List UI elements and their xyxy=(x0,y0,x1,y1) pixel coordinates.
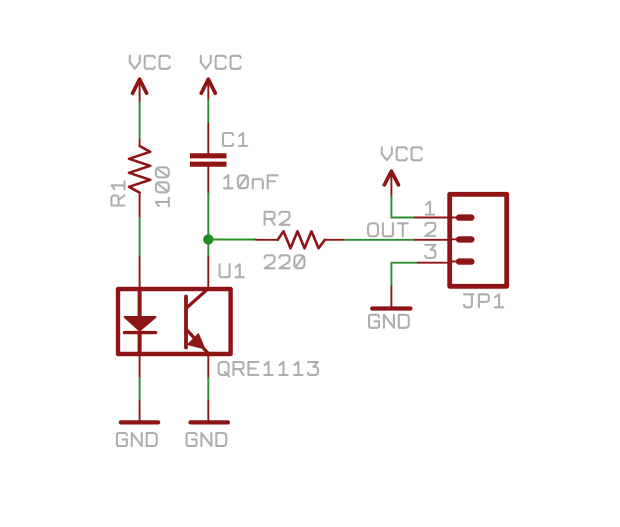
net label VCC (C1 branch) xyxy=(201,56,241,69)
supply symbol VCC (JP1 branch) xyxy=(384,171,398,185)
wire/net: junction down to U1 collector xyxy=(207,240,209,258)
wire/net: C1 to junction xyxy=(207,193,209,239)
wire: VCC pin stub (JP1 branch) xyxy=(390,171,392,196)
capacitor C1 pin stub top xyxy=(207,124,209,153)
resistor R1 name label xyxy=(112,181,125,205)
IC U1 value label QRE1113 xyxy=(219,362,318,377)
connector JP1 name label xyxy=(464,294,503,307)
wire/net OUT: R2 to JP1 pin 2 xyxy=(344,239,415,241)
U1 phototransistor base bar xyxy=(184,297,188,348)
IC U1 QRE1113 body outline xyxy=(118,289,231,354)
wire/net: pin3 corner down xyxy=(390,263,392,287)
resistor R2 name label xyxy=(265,212,290,225)
capacitor C1 name label xyxy=(223,133,247,146)
ground symbol GND (LED branch) xyxy=(121,420,158,424)
connector JP1 body outline xyxy=(450,194,507,286)
capacitor C1 value label 10nF xyxy=(224,175,278,188)
JP1 pin 2 stub xyxy=(415,239,449,241)
supply symbol VCC (R1 branch) xyxy=(133,79,147,93)
capacitor C1 plates xyxy=(190,156,227,164)
wire/net: R1 to U1 anode xyxy=(139,218,141,257)
JP1 pin 1 stub xyxy=(415,217,449,219)
JP1 pin number 3 xyxy=(425,245,435,258)
JP1 pin number 2 xyxy=(425,223,435,236)
ground label GND (LED branch) xyxy=(117,433,157,446)
ground label GND (emitter branch) xyxy=(187,433,227,446)
wire/net: VCC down to pin1 row xyxy=(390,196,392,217)
ground label GND (JP1 branch) xyxy=(369,315,409,328)
U1 internal LED triangle (anode) xyxy=(125,317,156,331)
wire/net: junction to R2 xyxy=(208,239,256,241)
resistor R2 value label 220 xyxy=(265,255,305,268)
U1 collector pin stub xyxy=(207,257,209,288)
JP1 pin 1 pad xyxy=(452,217,456,219)
resistor R1 value label 100 xyxy=(156,167,169,206)
resistor R1 body xyxy=(129,146,150,193)
JP1 pin number 1 xyxy=(426,202,434,215)
resistor R1 pin stub bottom xyxy=(139,193,141,218)
U1 emitter pin stub below box xyxy=(207,356,209,378)
wire/net: VCC to R1 xyxy=(139,102,141,140)
ground symbol GND (emitter branch) xyxy=(191,420,228,424)
U1 phototransistor emitter arrowhead xyxy=(188,334,205,349)
wire/net: VCC to C1 xyxy=(207,100,209,124)
JP1 pin 3 stub xyxy=(418,262,449,264)
wire: VCC pin stub (C1 branch) xyxy=(207,79,209,100)
U1 anode pin stub xyxy=(139,257,141,288)
GND symbol pin stub (JP1 branch) xyxy=(390,287,392,307)
U1 internal LED vertical lead xyxy=(138,289,142,318)
resistor R1 pin stub top xyxy=(139,140,141,146)
IC U1 name label xyxy=(220,264,244,277)
U1 phototransistor collector line xyxy=(187,289,208,308)
ground symbol GND (JP1 branch) xyxy=(372,306,410,310)
junction node (C1 / R2 / U1 collector) xyxy=(203,234,213,244)
net label OUT xyxy=(368,223,408,236)
wire/net: U1 emitter to GND xyxy=(207,378,209,401)
GND symbol pin stub (emitter branch) xyxy=(207,401,209,421)
net label VCC (R1 branch) xyxy=(130,56,170,69)
U1 phototransistor emitter line xyxy=(187,330,208,354)
supply symbol VCC (C1 branch) xyxy=(201,79,215,93)
resistor R2 pin stub right xyxy=(325,239,344,241)
U1 cathode pin stub below box xyxy=(139,356,141,378)
JP1 pin 2 pad xyxy=(452,238,456,240)
wire/net: U1 cathode to GND xyxy=(139,378,141,401)
wire/net: JP1 pin 3 to GND corner xyxy=(391,262,417,264)
JP1 pin 3 pad xyxy=(452,261,456,263)
resistor R2 body xyxy=(278,231,325,248)
GND symbol pin stub (LED branch) xyxy=(139,401,141,421)
U1 internal LED cathode bar xyxy=(125,331,156,334)
capacitor C1 pin stub bottom xyxy=(207,167,209,194)
wire: VCC pin stub to net (R1 branch) xyxy=(139,79,141,102)
resistor R2 pin stub left xyxy=(256,239,278,241)
wire/net: corner to JP1 pin 1 xyxy=(391,217,414,219)
net label VCC (JP1 branch) xyxy=(382,147,422,160)
U1 internal LED lead to box bottom xyxy=(138,333,142,354)
